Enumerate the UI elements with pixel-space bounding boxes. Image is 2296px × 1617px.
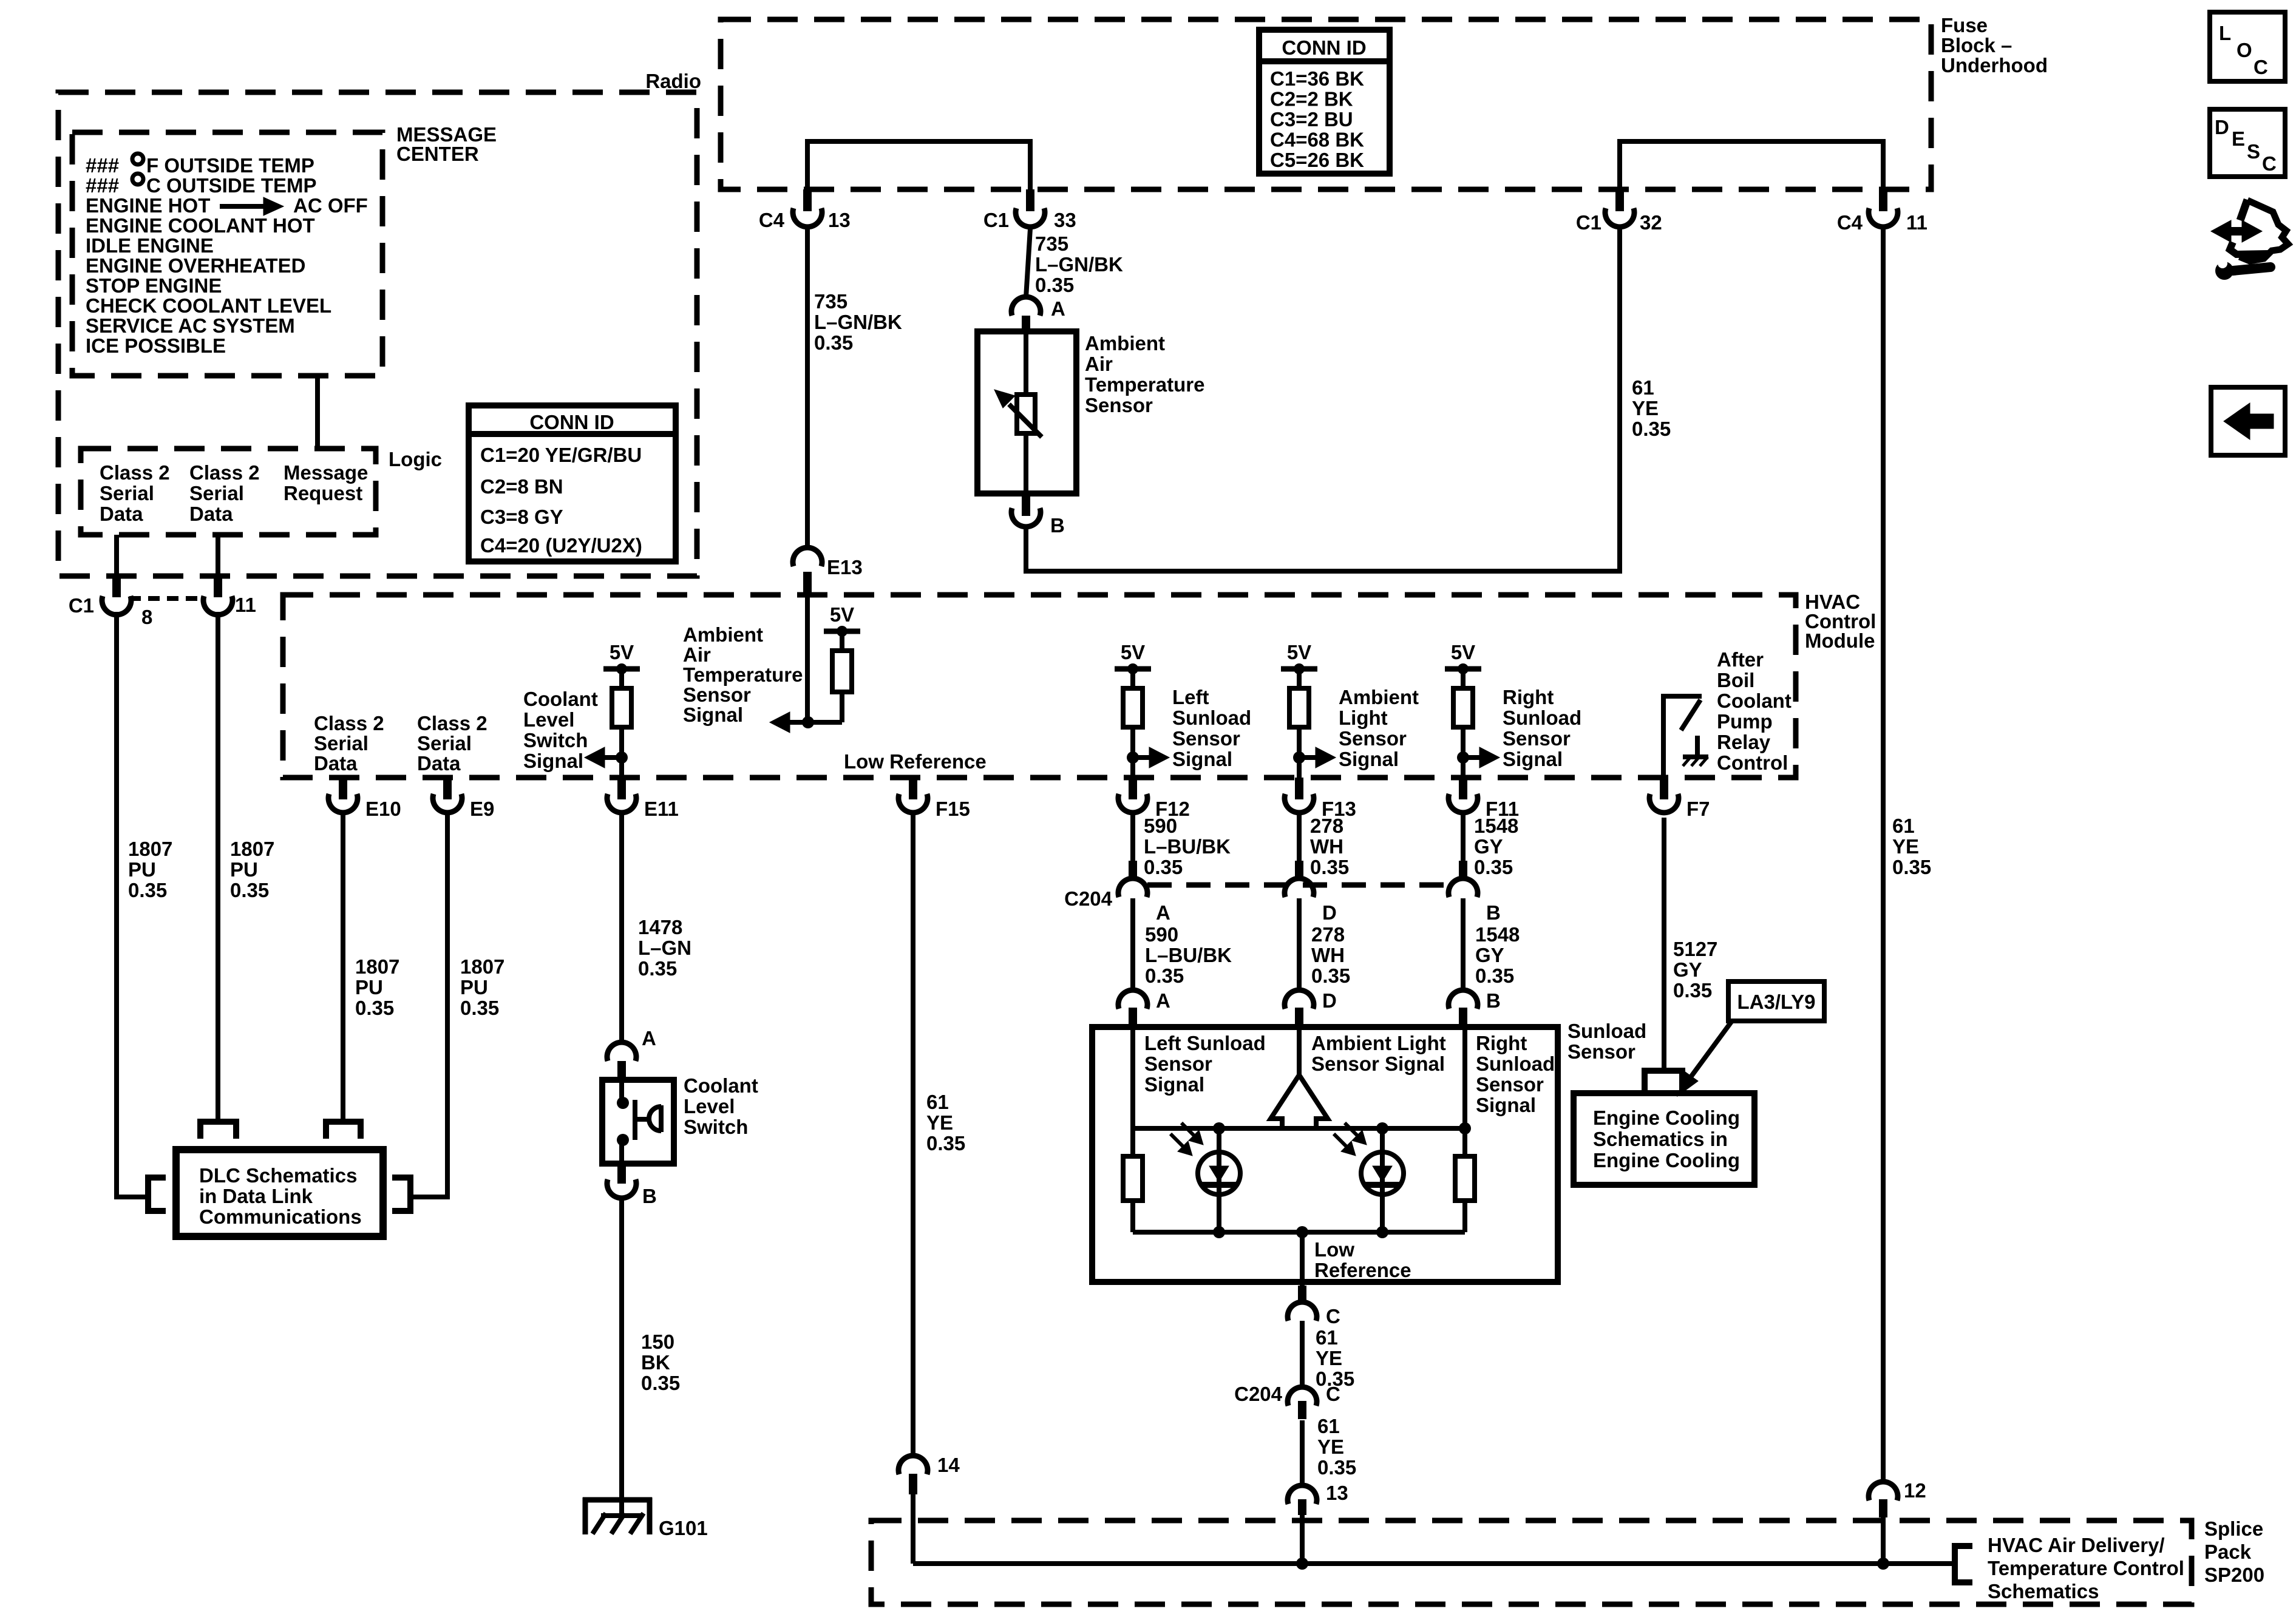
svg-text:Message: Message	[284, 461, 368, 484]
svg-text:13: 13	[1326, 1482, 1348, 1504]
svg-text:0.35: 0.35	[128, 879, 167, 901]
svg-text:0.35: 0.35	[1317, 1456, 1356, 1479]
svg-text:278: 278	[1310, 815, 1343, 837]
svg-text:GY: GY	[1474, 835, 1503, 858]
svg-text:CENTER: CENTER	[396, 143, 479, 165]
svg-text:L–GN: L–GN	[638, 937, 691, 959]
svg-text:ENGINE HOT: ENGINE HOT	[86, 194, 210, 217]
svg-text:61: 61	[1317, 1415, 1340, 1437]
svg-text:Fuse: Fuse	[1941, 14, 1988, 36]
svg-text:5V: 5V	[1121, 641, 1145, 663]
svg-text:Switch: Switch	[684, 1116, 748, 1138]
svg-text:Sensor: Sensor	[683, 683, 751, 706]
svg-text:in Data Link: in Data Link	[199, 1185, 313, 1207]
svg-text:C: C	[1326, 1383, 1340, 1405]
svg-text:C1: C1	[1576, 211, 1601, 234]
svg-text:HVAC Air Delivery/: HVAC Air Delivery/	[1988, 1534, 2165, 1556]
svg-text:PU: PU	[355, 976, 383, 998]
svg-text:E9: E9	[470, 798, 494, 820]
svg-text:F7: F7	[1686, 798, 1710, 820]
svg-text:WH: WH	[1311, 944, 1345, 966]
svg-text:Request: Request	[284, 482, 362, 504]
svg-text:Sunload: Sunload	[1172, 707, 1251, 729]
svg-text:G101: G101	[659, 1517, 708, 1539]
svg-text:0.35: 0.35	[638, 957, 677, 980]
svg-text:LA3/LY9: LA3/LY9	[1737, 991, 1815, 1013]
svg-text:C3=8 GY: C3=8 GY	[480, 506, 563, 528]
svg-text:Sensor: Sensor	[1085, 394, 1153, 416]
svg-text:Right: Right	[1503, 686, 1554, 708]
svg-text:L: L	[2219, 22, 2231, 44]
svg-text:0.35: 0.35	[641, 1372, 680, 1394]
svg-text:0.35: 0.35	[355, 997, 394, 1019]
svg-text:32: 32	[1640, 211, 1662, 234]
svg-text:###: ###	[86, 174, 119, 197]
svg-text:GY: GY	[1673, 958, 1702, 981]
svg-text:C1: C1	[69, 594, 94, 617]
svg-text:Left Sunload: Left Sunload	[1144, 1032, 1266, 1054]
svg-text:0.35: 0.35	[814, 331, 853, 354]
svg-text:D: D	[1322, 901, 1337, 924]
svg-text:61: 61	[1316, 1326, 1338, 1349]
svg-text:Module: Module	[1805, 629, 1875, 652]
svg-text:Pump: Pump	[1717, 710, 1773, 733]
svg-text:STOP ENGINE: STOP ENGINE	[86, 274, 222, 297]
svg-text:Data: Data	[189, 503, 233, 525]
svg-text:61: 61	[1632, 376, 1654, 399]
svg-text:Serial: Serial	[100, 482, 154, 504]
svg-text:GY: GY	[1475, 944, 1504, 966]
svg-text:0.35: 0.35	[1474, 856, 1513, 878]
svg-text:F15: F15	[936, 798, 970, 820]
svg-text:0.35: 0.35	[1673, 979, 1712, 1002]
svg-text:Ambient: Ambient	[1339, 686, 1419, 708]
svg-text:PU: PU	[460, 976, 488, 998]
svg-text:735: 735	[1035, 232, 1068, 255]
svg-text:150: 150	[641, 1331, 674, 1353]
svg-text:C OUTSIDE TEMP: C OUTSIDE TEMP	[146, 174, 317, 197]
svg-text:5V: 5V	[830, 603, 854, 626]
svg-text:Air: Air	[1085, 353, 1113, 375]
svg-text:Signal: Signal	[1503, 748, 1563, 770]
svg-text:Coolant: Coolant	[1717, 690, 1792, 712]
svg-text:After: After	[1717, 648, 1764, 671]
svg-text:1478: 1478	[638, 916, 682, 938]
svg-text:Logic: Logic	[389, 448, 442, 470]
svg-text:61: 61	[926, 1091, 949, 1113]
svg-text:BK: BK	[641, 1351, 670, 1374]
svg-text:Left: Left	[1172, 686, 1209, 708]
svg-text:Serial: Serial	[189, 482, 244, 504]
svg-text:B: B	[642, 1185, 657, 1207]
svg-text:###: ###	[86, 154, 119, 177]
svg-text:A: A	[1156, 989, 1170, 1012]
svg-text:8: 8	[141, 606, 152, 628]
svg-text:1807: 1807	[230, 838, 274, 860]
svg-text:Sensor: Sensor	[1172, 727, 1240, 750]
svg-text:E: E	[2232, 127, 2245, 150]
svg-text:Pack: Pack	[2204, 1541, 2252, 1563]
svg-text:C1=20 YE/GR/BU: C1=20 YE/GR/BU	[480, 444, 642, 466]
svg-text:C: C	[1326, 1305, 1340, 1327]
svg-text:1807: 1807	[460, 955, 504, 978]
svg-text:B: B	[1050, 514, 1065, 537]
svg-text:Sunload: Sunload	[1476, 1053, 1555, 1075]
svg-text:Block –: Block –	[1941, 34, 2012, 56]
svg-text:33: 33	[1054, 209, 1076, 231]
svg-text:C4=20 (U2Y/U2X): C4=20 (U2Y/U2X)	[480, 534, 642, 557]
svg-text:Switch: Switch	[523, 729, 588, 751]
svg-text:Coolant: Coolant	[523, 688, 598, 710]
svg-text:1548: 1548	[1474, 815, 1518, 837]
svg-text:Communications: Communications	[199, 1205, 362, 1228]
svg-text:SERVICE AC SYSTEM: SERVICE AC SYSTEM	[86, 314, 295, 337]
svg-text:B: B	[1486, 901, 1501, 924]
svg-text:0.35: 0.35	[1035, 274, 1074, 296]
svg-text:278: 278	[1311, 923, 1345, 946]
svg-text:YE: YE	[1632, 397, 1659, 419]
svg-text:1548: 1548	[1475, 923, 1520, 946]
svg-text:C3=2 BU: C3=2 BU	[1270, 108, 1353, 131]
svg-text:C2=8 BN: C2=8 BN	[480, 475, 563, 498]
svg-text:E13: E13	[827, 556, 863, 578]
svg-text:Ambient Light: Ambient Light	[1311, 1032, 1446, 1054]
svg-text:Engine Cooling: Engine Cooling	[1593, 1149, 1740, 1171]
svg-text:C2=2 BK: C2=2 BK	[1270, 88, 1353, 110]
svg-text:Class 2: Class 2	[417, 712, 487, 734]
svg-text:Underhood: Underhood	[1941, 54, 2048, 76]
svg-text:1807: 1807	[128, 838, 172, 860]
svg-text:C5=26 BK: C5=26 BK	[1270, 149, 1364, 171]
svg-text:L–BU/BK: L–BU/BK	[1144, 835, 1231, 858]
svg-text:IDLE ENGINE: IDLE ENGINE	[86, 234, 214, 257]
svg-text:CONN ID: CONN ID	[529, 411, 614, 433]
svg-text:E10: E10	[365, 798, 401, 820]
svg-text:Sunload: Sunload	[1567, 1020, 1646, 1042]
svg-text:5V: 5V	[1287, 641, 1311, 663]
svg-text:Signal: Signal	[1476, 1094, 1536, 1116]
svg-text:SP200: SP200	[2204, 1564, 2264, 1586]
svg-text:Temperature: Temperature	[683, 663, 803, 686]
svg-text:YE: YE	[1892, 835, 1919, 858]
svg-text:C4: C4	[759, 209, 785, 231]
svg-text:Low Reference: Low Reference	[844, 750, 987, 773]
svg-text:AC OFF: AC OFF	[293, 194, 368, 217]
svg-text:Sensor: Sensor	[1339, 727, 1407, 750]
svg-text:Data: Data	[100, 503, 143, 525]
svg-text:YE: YE	[926, 1111, 953, 1134]
svg-text:Signal: Signal	[1339, 748, 1399, 770]
svg-text:Class 2: Class 2	[314, 712, 384, 734]
svg-text:Level: Level	[523, 708, 574, 731]
svg-text:Level: Level	[684, 1095, 735, 1117]
svg-text:0.35: 0.35	[1145, 964, 1184, 987]
svg-text:0.35: 0.35	[230, 879, 269, 901]
svg-text:0.35: 0.35	[1310, 856, 1349, 878]
svg-text:Schematics: Schematics	[1988, 1580, 2099, 1602]
svg-text:Ambient: Ambient	[1085, 332, 1165, 354]
svg-text:Temperature: Temperature	[1085, 373, 1204, 396]
svg-text:D: D	[1322, 989, 1337, 1012]
svg-text:Class 2: Class 2	[189, 461, 260, 484]
svg-text:11: 11	[235, 594, 256, 616]
svg-text:Low: Low	[1314, 1238, 1354, 1261]
svg-text:Sensor: Sensor	[1503, 727, 1571, 750]
svg-text:0.35: 0.35	[1475, 964, 1514, 987]
svg-text:F OUTSIDE TEMP: F OUTSIDE TEMP	[146, 154, 314, 177]
svg-text:13: 13	[828, 209, 851, 231]
svg-text:Boil: Boil	[1717, 669, 1754, 691]
svg-text:5127: 5127	[1673, 938, 1717, 960]
svg-text:Radio: Radio	[645, 70, 701, 92]
svg-text:61: 61	[1892, 815, 1915, 837]
svg-text:Engine Cooling: Engine Cooling	[1593, 1107, 1740, 1129]
svg-text:ICE POSSIBLE: ICE POSSIBLE	[86, 334, 226, 357]
svg-text:A: A	[642, 1027, 656, 1049]
svg-text:DLC Schematics: DLC Schematics	[199, 1164, 357, 1187]
svg-text:Serial: Serial	[314, 732, 369, 754]
svg-text:0.35: 0.35	[1311, 964, 1350, 987]
svg-text:C: C	[2254, 56, 2268, 78]
svg-text:Data: Data	[314, 752, 358, 775]
svg-text:L–GN/BK: L–GN/BK	[814, 311, 902, 333]
svg-text:Signal: Signal	[1144, 1073, 1204, 1096]
svg-text:0.35: 0.35	[460, 997, 499, 1019]
svg-text:Splice: Splice	[2204, 1517, 2263, 1540]
svg-text:E11: E11	[644, 798, 679, 820]
svg-text:0.35: 0.35	[1632, 418, 1671, 440]
svg-text:PU: PU	[230, 858, 258, 881]
svg-text:Reference: Reference	[1314, 1259, 1411, 1281]
svg-text:735: 735	[814, 290, 847, 313]
svg-text:Signal: Signal	[1172, 748, 1232, 770]
svg-text:ENGINE COOLANT HOT: ENGINE COOLANT HOT	[86, 214, 315, 237]
svg-text:L–GN/BK: L–GN/BK	[1035, 253, 1123, 276]
svg-text:590: 590	[1145, 923, 1178, 946]
svg-text:Relay: Relay	[1717, 731, 1771, 753]
svg-text:WH: WH	[1310, 835, 1343, 858]
svg-text:D: D	[2215, 116, 2229, 138]
svg-text:Sunload: Sunload	[1503, 707, 1581, 729]
svg-text:1807: 1807	[355, 955, 399, 978]
svg-text:Control: Control	[1717, 751, 1788, 774]
svg-text:Coolant: Coolant	[684, 1074, 758, 1097]
svg-text:ENGINE OVERHEATED: ENGINE OVERHEATED	[86, 254, 305, 277]
svg-text:Signal: Signal	[523, 750, 583, 772]
svg-text:C1: C1	[983, 209, 1009, 231]
svg-text:PU: PU	[128, 858, 156, 881]
svg-text:L–BU/BK: L–BU/BK	[1145, 944, 1232, 966]
svg-text:Right: Right	[1476, 1032, 1527, 1054]
svg-text:0.35: 0.35	[1892, 856, 1931, 878]
svg-text:S: S	[2247, 140, 2260, 163]
svg-text:Air: Air	[683, 643, 711, 666]
svg-text:Data: Data	[417, 752, 461, 775]
svg-text:Serial: Serial	[417, 732, 472, 754]
svg-text:5V: 5V	[1451, 641, 1475, 663]
svg-text:5V: 5V	[610, 641, 634, 663]
svg-text:Class 2: Class 2	[100, 461, 170, 484]
svg-text:O: O	[2237, 39, 2252, 61]
svg-text:Schematics in: Schematics in	[1593, 1128, 1728, 1150]
svg-text:Ambient: Ambient	[683, 623, 763, 646]
svg-text:C204: C204	[1234, 1383, 1283, 1405]
svg-text:0.35: 0.35	[1144, 856, 1183, 878]
svg-text:14: 14	[937, 1454, 960, 1476]
svg-text:0.35: 0.35	[926, 1132, 965, 1154]
svg-text:YE: YE	[1317, 1436, 1344, 1458]
svg-text:A: A	[1156, 901, 1170, 924]
svg-text:590: 590	[1144, 815, 1177, 837]
svg-text:Sensor: Sensor	[1144, 1053, 1212, 1075]
svg-text:Signal: Signal	[683, 703, 743, 726]
svg-text:Light: Light	[1339, 707, 1388, 729]
svg-text:C: C	[2262, 152, 2277, 175]
svg-text:C4=68 BK: C4=68 BK	[1270, 129, 1364, 151]
svg-text:Sensor Signal: Sensor Signal	[1311, 1053, 1445, 1075]
svg-text:A: A	[1051, 297, 1065, 320]
svg-text:12: 12	[1904, 1479, 1926, 1502]
svg-text:C1=36 BK: C1=36 BK	[1270, 67, 1364, 90]
svg-text:Sensor: Sensor	[1476, 1073, 1544, 1096]
svg-text:CHECK COOLANT LEVEL: CHECK COOLANT LEVEL	[86, 294, 331, 317]
svg-text:11: 11	[1906, 211, 1927, 234]
svg-text:B: B	[1486, 989, 1501, 1012]
svg-text:CONN ID: CONN ID	[1282, 36, 1366, 59]
svg-text:Sensor: Sensor	[1567, 1040, 1635, 1063]
svg-text:C4: C4	[1837, 211, 1863, 234]
svg-text:YE: YE	[1316, 1347, 1342, 1369]
svg-text:Temperature Control: Temperature Control	[1988, 1557, 2184, 1579]
svg-text:C204: C204	[1064, 887, 1113, 910]
